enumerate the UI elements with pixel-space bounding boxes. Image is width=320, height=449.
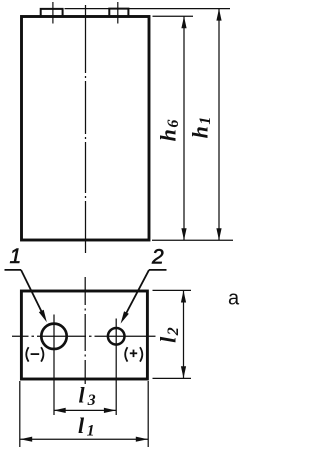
svg-text:1: 1 xyxy=(10,245,22,268)
svg-text:2: 2 xyxy=(151,245,164,268)
svg-text:a: a xyxy=(228,287,240,309)
